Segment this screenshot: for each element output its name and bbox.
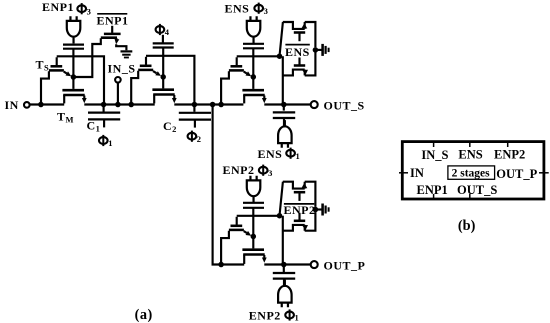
svg-text:ENP2: ENP2 xyxy=(284,203,316,217)
node OUT_S junction dot xyxy=(281,102,287,108)
node G1 junction dot xyxy=(71,74,77,80)
2 stages inner box xyxy=(448,166,495,179)
transistor TS2 drain arrow to node G2 xyxy=(153,71,157,73)
transistor ENP1bar drain arrow and wire to ground xyxy=(116,37,118,40)
dummy FET bottom gate lead (ENP2) xyxy=(298,213,300,221)
transistor ENP1bar gate lead xyxy=(111,26,113,33)
node TS3 source junction dot xyxy=(218,102,224,108)
wire TM4 source to feed corner xyxy=(219,263,244,265)
wire node G down to output wire (ENP2) xyxy=(282,216,284,265)
node G3 wire junction dot xyxy=(277,53,283,59)
svg-text:1: 1 xyxy=(108,138,112,148)
wire IN_S lead to bus xyxy=(117,83,119,104)
node IN_S junction dot xyxy=(115,102,121,108)
dummy FET top gate lead (ENS) xyxy=(298,34,300,42)
label ENP2bar with overline xyxy=(284,203,314,205)
wire feed from bus down to ENP2 cell xyxy=(213,105,220,265)
decouple capacitor top lead (OUT_P) xyxy=(283,265,285,273)
label phi1 (U4 input) xyxy=(286,150,295,157)
node G2 junction dot xyxy=(160,74,166,80)
node TS2 source junction dot xyxy=(128,102,134,108)
transistor TM2 drain arrow to bus xyxy=(173,95,175,98)
pin tick IN_S xyxy=(433,141,435,147)
svg-text:ENP2: ENP2 xyxy=(223,163,255,177)
wire slant node G to dummy-pair top rail (ENP2) xyxy=(280,182,283,216)
block diagram outer box xyxy=(402,142,544,199)
transistor TM source lead xyxy=(63,95,65,103)
transistor TM2 source lead xyxy=(153,95,155,104)
transistor TS2 source wire to bus xyxy=(131,71,138,104)
transistor TM drain arrow to bus xyxy=(83,96,85,99)
label phi4 xyxy=(156,26,165,33)
dummy FET top channel arrow (ENP2) xyxy=(301,183,307,188)
ground symbol xyxy=(121,50,133,52)
wire bus segment B (TM drain to TM2 source) xyxy=(84,103,154,105)
wire CB1 bottom to node G1 xyxy=(72,49,74,78)
terminal IN_S open circle xyxy=(115,77,121,83)
svg-text:IN: IN xyxy=(5,98,19,112)
node C2 junction dot xyxy=(192,102,198,108)
label ENP1bar with overline xyxy=(97,13,127,15)
transistor TM3 gate lead xyxy=(252,77,254,89)
node dummy ground tap dot (ENS) xyxy=(313,47,319,53)
transistor TS3 drain arrow to node G3b xyxy=(244,72,247,74)
svg-text:(a): (a) xyxy=(135,307,153,323)
label phi1 (U6 input) xyxy=(285,312,294,319)
decouple capacitor bottom lead (OUT_S) xyxy=(283,118,285,127)
svg-text:2: 2 xyxy=(197,134,201,144)
wire CB3 bottom to node G3 xyxy=(252,48,254,77)
svg-text:ENP1: ENP1 xyxy=(97,13,129,27)
wire node G down to output wire (ENS) xyxy=(282,56,284,104)
svg-text:ENP1: ENP1 xyxy=(417,183,448,197)
dummy FET bottom channel arrow (ENP2) xyxy=(302,225,308,230)
decouple capacitor top lead (OUT_S) xyxy=(283,105,285,111)
dummy FET top gate bar (ENS) xyxy=(294,31,305,34)
wire CB5 bottom to node G5 xyxy=(252,208,254,237)
node G5 wire junction dot xyxy=(277,213,283,219)
wire slant node G to dummy-pair top rail (ENS) xyxy=(280,22,283,56)
svg-text:(b): (b) xyxy=(458,218,476,234)
dummy FET bottom channel arrow (ENS) xyxy=(302,70,308,75)
wire CB2 bottom to node G2 xyxy=(162,47,164,77)
svg-text:IN_S: IN_S xyxy=(421,148,448,162)
wire node G2 horizontal rail xyxy=(146,56,194,104)
svg-text:ENS: ENS xyxy=(458,147,482,161)
transistor TM gate bar xyxy=(62,89,84,92)
svg-text:3: 3 xyxy=(87,6,91,16)
and-gate U4 (ENS·phi1) pointing up xyxy=(278,120,292,148)
svg-text:3: 3 xyxy=(268,168,272,178)
transistor TM2 gate lead xyxy=(162,77,164,89)
transistor TS4 drain arrow to node G5b xyxy=(244,231,247,233)
and-gate U5 (ENP2·phi3) xyxy=(247,176,260,203)
svg-text:ENP2: ENP2 xyxy=(249,308,281,322)
wire node G1 horizontal (Ts gate rail) xyxy=(57,56,104,103)
and-gate U1 (ENP1·phi3) xyxy=(67,16,81,43)
dummy FET top gate lead (ENP2) xyxy=(298,193,300,201)
dummy pair bottom rail with inline bottom FET channel (ENS) xyxy=(283,53,316,76)
transistor TM4 drain arrow to OUT_P wire xyxy=(263,255,265,258)
label ENSbar with overline xyxy=(285,44,309,46)
wire node G5 horizontal rail xyxy=(237,215,280,217)
transistor TS4 source wire to feed xyxy=(221,231,229,264)
transistor TM channel bar xyxy=(63,94,84,97)
wire phi4 to CB2 xyxy=(162,35,164,43)
node TS4 source junction dot xyxy=(218,262,224,268)
svg-text:ENS: ENS xyxy=(285,45,310,59)
capacitor C1 bottom lead xyxy=(103,119,105,127)
and-gate U6 (ENP2·phi1) pointing up xyxy=(278,280,292,308)
dummy pair top rail with inline top FET channel (ENP2) xyxy=(283,182,316,207)
rotated ground symbol (ENP2) xyxy=(321,204,324,216)
node IN junction dot (TS source) xyxy=(38,102,44,108)
wire node G1 to ENP1bar switch source xyxy=(73,38,100,77)
capacitor C1 plates xyxy=(88,111,120,113)
capacitor C2 top lead xyxy=(193,105,195,112)
label phi2 (C2 bottom plate) xyxy=(188,133,197,140)
node OUT_P junction dot xyxy=(281,262,287,268)
and-gate U3 (ENS·phi3) xyxy=(247,16,260,43)
node dummy ground tap dot (ENP2) xyxy=(313,207,319,213)
dummy FET bottom gate bar (ENS) xyxy=(294,64,305,67)
wire ground tap (ENS) xyxy=(315,49,321,51)
wire OUT_S xyxy=(264,103,311,105)
transistor TM4 source lead xyxy=(243,255,245,264)
svg-text:2 stages: 2 stages xyxy=(452,168,491,180)
label phi3 (AND input, ENP2 cell) xyxy=(259,167,268,174)
svg-text:IN_S: IN_S xyxy=(108,62,136,76)
dummy FET top channel arrow (ENS) xyxy=(301,23,307,28)
transistor TS drain arrow to node G1 xyxy=(64,72,67,74)
capacitor C2 bottom lead xyxy=(194,120,196,128)
wire bus segment C (TM2 drain to TM3 source) xyxy=(174,103,243,105)
node ENP2-feed junction dot xyxy=(210,102,216,108)
capacitor C2 plates xyxy=(179,112,211,114)
transistor TS4 gate lead and bars xyxy=(236,217,238,225)
transistor TM4 gate lead xyxy=(252,236,254,248)
transistor TM4 gate bar xyxy=(242,248,264,251)
dummy pair top rail with inline top FET channel (ENS) xyxy=(283,22,316,47)
wire ground tap (ENP2) xyxy=(315,208,321,210)
node C1 junction dot xyxy=(101,102,107,108)
transistor ENP1bar gate bar xyxy=(104,33,121,36)
svg-text:ENP1: ENP1 xyxy=(42,0,74,14)
node G3b junction dot xyxy=(251,74,256,80)
transistor TS gate lead and bars xyxy=(56,57,58,65)
transistor TM4 channel bar xyxy=(243,253,265,256)
svg-text:OUT_S: OUT_S xyxy=(324,98,365,112)
pin tick ENP1 xyxy=(433,194,435,200)
transistor TS2 gate lead and bars xyxy=(145,57,147,65)
capacitor C1 top lead xyxy=(103,105,105,112)
svg-text:ENP2: ENP2 xyxy=(494,147,525,161)
pin tick ENP2 xyxy=(507,141,509,147)
pin tick ENS xyxy=(469,141,471,147)
terminal OUT_S open circle xyxy=(311,101,318,108)
label phi3 (AND input, stage 1) xyxy=(77,5,86,12)
transistor TS3 gate lead and bars xyxy=(236,57,238,65)
transistor TM3 source lead xyxy=(243,95,245,103)
dummy pair bottom rail with inline bottom FET channel (ENP2) xyxy=(283,212,316,231)
terminal OUT_P open circle xyxy=(311,261,318,268)
transistor TM2 channel bar xyxy=(153,93,175,96)
label phi1 (C1 bottom plate) xyxy=(99,137,108,144)
decouple capacitor bottom lead (OUT_P) xyxy=(283,279,285,287)
pin tick OUT_S xyxy=(469,194,471,200)
transistor TS source wire to IN bus xyxy=(41,71,49,103)
svg-text:4: 4 xyxy=(165,27,170,37)
dummy FET bottom gate bar (ENP2) xyxy=(294,220,305,223)
node G5b junction dot xyxy=(251,234,256,240)
transistor TS3 source wire to bus xyxy=(221,71,229,103)
bootstrap capacitor CB1 xyxy=(63,43,84,45)
transistor TM gate lead xyxy=(72,77,74,89)
decouple capacitor plates (OUT_P) xyxy=(273,272,295,274)
svg-text:IN: IN xyxy=(410,166,424,180)
decouple capacitor plates (OUT_S) xyxy=(273,111,295,113)
label phi3 (AND input, ENS cell) xyxy=(254,5,263,12)
svg-text:3: 3 xyxy=(264,6,268,16)
bootstrap capacitor CB5 xyxy=(243,202,264,204)
svg-text:1: 1 xyxy=(295,313,299,323)
rotated ground symbol (ENS) xyxy=(321,44,324,56)
terminal IN open circle xyxy=(24,102,30,108)
svg-text:ENS: ENS xyxy=(258,147,283,161)
svg-text:OUT_P: OUT_P xyxy=(324,258,366,272)
wire OUT_P xyxy=(264,263,311,265)
pin tick IN xyxy=(399,172,408,174)
transistor TM3 drain arrow to OUT_S wire xyxy=(263,96,265,99)
bootstrap capacitor CB2 xyxy=(153,42,174,44)
svg-text:OUT_S: OUT_S xyxy=(457,183,497,197)
bootstrap capacitor CB3 xyxy=(243,43,264,45)
svg-text:ENS: ENS xyxy=(225,2,250,16)
dummy FET bottom gate lead (ENS) xyxy=(298,58,300,66)
dummy FET top gate bar (ENP2) xyxy=(294,191,305,194)
transistor TM3 channel bar xyxy=(243,94,265,97)
transistor ENP1bar channel bar xyxy=(101,36,117,39)
transistor TM3 gate bar xyxy=(242,89,264,92)
pin tick OUT_P xyxy=(539,172,549,174)
svg-text:1: 1 xyxy=(296,151,300,161)
transistor TM2 gate bar xyxy=(152,88,174,91)
wire node G3 horizontal rail xyxy=(237,55,280,57)
wire IN bus segment A xyxy=(30,103,64,105)
svg-text:OUT_P: OUT_P xyxy=(496,167,537,181)
